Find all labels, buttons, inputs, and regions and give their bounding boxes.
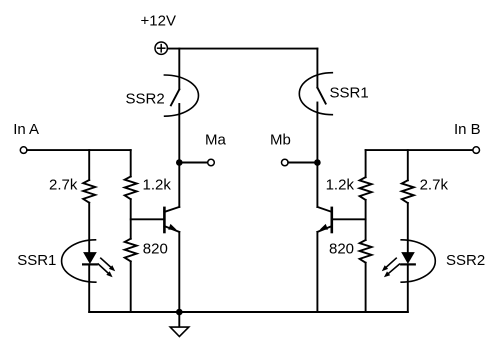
wire In B <box>366 149 473 151</box>
svg-text:1.2k: 1.2k <box>143 176 172 193</box>
LED D1 cathode bar <box>83 263 97 265</box>
transistor Q2 base bar <box>330 208 333 232</box>
wire left drop from rail <box>178 49 180 90</box>
svg-text:Mb: Mb <box>270 132 291 149</box>
svg-text:In B: In B <box>454 121 481 138</box>
wire R2.7k to LED left <box>88 203 90 252</box>
wire collector Q1 <box>178 163 180 207</box>
junction Mb <box>314 159 321 166</box>
LED D1 triangle <box>83 252 97 264</box>
transistor Q2 emitter with arrow <box>317 226 331 232</box>
LED D1 light arrow 1 <box>101 258 113 269</box>
resistor 1.2k right <box>360 177 372 200</box>
switch SSR1 arc <box>299 73 332 115</box>
wire In A <box>27 149 131 151</box>
wire base right <box>333 218 366 220</box>
transistor Q1 collector <box>164 207 179 212</box>
LED D1 (SSR1) arc <box>62 240 96 282</box>
svg-text:SSR1: SSR1 <box>330 85 369 102</box>
wire below SSR1 switch <box>316 103 318 163</box>
power terminal +12V <box>155 42 167 54</box>
wire 820 to rail left <box>130 261 132 312</box>
wire emitter Q2 to rail <box>316 232 318 312</box>
wire below SSR2 switch <box>178 104 180 163</box>
svg-text:820: 820 <box>329 240 354 257</box>
wire right drop from rail <box>316 49 318 88</box>
wire emitter Q1 to rail <box>178 232 180 312</box>
terminal Ma <box>208 159 215 166</box>
svg-text:SSR2: SSR2 <box>126 90 165 107</box>
LED D2 light arrow 2 <box>386 264 399 275</box>
wire 1.2k to 820 right <box>365 200 367 240</box>
wire LED D2 to rail <box>407 264 409 312</box>
wire to R 2.7k right <box>407 150 409 180</box>
wire Mb stub <box>288 162 317 164</box>
LED D2 light arrow 1 <box>384 258 396 269</box>
svg-text:2.7k: 2.7k <box>49 176 78 193</box>
wire 1.2k to 820 left <box>130 199 132 239</box>
wire to ground <box>178 312 180 327</box>
svg-text:1.2k: 1.2k <box>326 176 355 193</box>
LED D2 cathode bar <box>401 263 415 265</box>
resistor 820 left <box>125 239 137 262</box>
switch SSR2 blade <box>171 89 179 105</box>
LED D2 (SSR2) arc <box>401 240 435 282</box>
ground <box>170 327 189 336</box>
svg-text:+12V: +12V <box>141 13 176 30</box>
terminal In B <box>473 147 480 154</box>
wire 820 to rail right <box>365 263 367 312</box>
svg-text:820: 820 <box>143 240 168 257</box>
transistor Q2 collector <box>317 207 331 212</box>
resistor 2.7k left <box>83 180 95 203</box>
svg-text:2.7k: 2.7k <box>420 176 449 193</box>
wire collector Q2 <box>316 163 318 207</box>
resistor 1.2k left <box>125 177 137 200</box>
LED D1 light arrow 2 <box>98 264 110 275</box>
LED D2 triangle <box>401 252 415 264</box>
junction Ma <box>176 159 183 166</box>
wire Ma stub <box>179 162 207 164</box>
resistor 820 right <box>360 240 372 263</box>
switch SSR1 blade <box>317 88 325 104</box>
switch SSR2 arc <box>164 75 198 116</box>
svg-text:Ma: Ma <box>205 132 226 149</box>
transistor Q1 base bar <box>163 208 166 232</box>
wire top rail <box>168 48 318 50</box>
terminal Mb <box>282 159 289 166</box>
svg-text:In A: In A <box>13 121 39 138</box>
svg-text:SSR1: SSR1 <box>17 252 56 269</box>
wire bottom rail <box>89 311 408 313</box>
wire base left <box>131 218 164 220</box>
svg-text:SSR2: SSR2 <box>446 252 485 269</box>
wire LED D1 to rail <box>88 264 90 312</box>
wire R2.7k to LED right <box>407 203 409 252</box>
junction ground <box>176 309 183 316</box>
resistor 2.7k right <box>402 180 414 203</box>
wire to R 2.7k left <box>88 150 90 180</box>
wire to R 1.2k left <box>130 150 132 176</box>
terminal In A <box>20 147 27 154</box>
wire to R 1.2k right <box>365 150 367 177</box>
transistor Q1 emitter with arrow <box>164 226 179 232</box>
